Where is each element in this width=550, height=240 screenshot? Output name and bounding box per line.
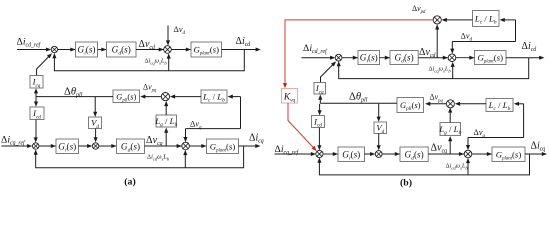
svg-text:(a): (a): [124, 177, 135, 188]
svg-text:(b): (b): [400, 178, 412, 189]
svg-text:ΔicqωsLb: ΔicqωsLb: [145, 58, 168, 66]
svg-text:ΔicdωsLb: ΔicdωsLb: [446, 162, 469, 170]
svg-text:ΔicqωsLb: ΔicqωsLb: [429, 66, 452, 74]
svg-text:ΔicdωsLb: ΔicdωsLb: [147, 154, 170, 162]
